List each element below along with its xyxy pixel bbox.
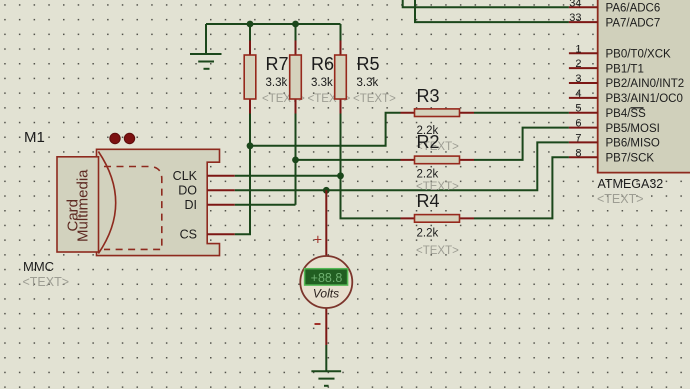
svg-text:2: 2	[575, 58, 581, 70]
wire voltmeter to ground	[325, 345, 327, 371]
svg-text:<TEXT>: <TEXT>	[416, 245, 459, 257]
chip pin 6 PB5/MOSI	[569, 118, 660, 135]
node junction on bus at R7	[247, 21, 254, 28]
svg-text:3.3k: 3.3k	[311, 77, 333, 89]
wire CS from MMC up and across to R3	[235, 113, 401, 235]
node junction on bus at R6	[292, 21, 299, 28]
wire R2 line from R6 column to R2	[296, 159, 401, 161]
svg-text:R2: R2	[417, 132, 440, 152]
wire to chip pin 34	[403, 0, 569, 7]
svg-text:33: 33	[569, 12, 581, 24]
op-amp U1 : ATMEGA32 chip body	[597, 0, 690, 206]
voltmeter pin + (top)	[325, 190, 327, 256]
svg-text:7: 7	[575, 132, 581, 144]
svg-text:<TEXT>: <TEXT>	[597, 192, 644, 206]
svg-text:+: +	[314, 233, 322, 249]
svg-text:R4: R4	[417, 191, 440, 211]
card curved edge	[98, 152, 115, 254]
svg-text:<TEXT>: <TEXT>	[353, 93, 396, 105]
wire R6 top to bus	[295, 24, 297, 41]
svg-text:M1: M1	[24, 129, 45, 146]
svg-text:DI: DI	[185, 198, 198, 212]
chip pin 1 PB0/T0/XCK	[569, 43, 671, 60]
svg-text:MMC: MMC	[23, 259, 54, 274]
MMC holder body	[97, 149, 220, 255]
svg-text:DO: DO	[178, 184, 197, 198]
resistor R2	[401, 132, 475, 193]
svg-text:Multimedia: Multimedia	[75, 169, 92, 242]
svg-text:PA7/ADC7: PA7/ADC7	[606, 17, 661, 29]
svg-text:PB5/MOSI: PB5/MOSI	[606, 123, 660, 135]
card sleeve rectangle	[57, 157, 99, 252]
svg-text:CS: CS	[180, 228, 197, 242]
svg-text:PB7/SCK: PB7/SCK	[606, 153, 655, 165]
svg-text:PB2/AIN0/INT2: PB2/AIN0/INT2	[606, 78, 685, 90]
node junction CLK/R5	[337, 172, 344, 179]
chip pin 4 PB3/AIN1/OC0	[569, 88, 683, 105]
svg-text:+88.8: +88.8	[311, 271, 343, 285]
minus terminal mark	[315, 323, 321, 325]
svg-text:PB0/T0/XCK: PB0/T0/XCK	[606, 49, 672, 61]
node junction CS/R7	[247, 142, 254, 149]
wire R5 bottom down to R4 line	[341, 114, 401, 219]
chip pin 2 PB1/T1	[569, 58, 644, 75]
svg-text:R7: R7	[266, 54, 289, 74]
chip pin 7 PB6/MISO	[569, 132, 660, 149]
indicator dot right	[124, 133, 134, 143]
svg-text:8: 8	[575, 147, 581, 159]
svg-text:ATMEGA32: ATMEGA32	[598, 177, 664, 191]
svg-text:PA6/ADC6: PA6/ADC6	[606, 3, 661, 15]
voltmeter pin - (bottom)	[325, 308, 327, 345]
wire top bus from ground to R5 top	[206, 23, 341, 25]
svg-text:2.2k: 2.2k	[417, 228, 439, 240]
svg-text:3.3k: 3.3k	[266, 77, 288, 89]
wire R7 top to bus	[249, 24, 251, 41]
svg-text:Volts: Volts	[313, 287, 339, 301]
chip pin 3 PB2/AIN0/INT2	[569, 73, 684, 90]
svg-text:PB6/MISO: PB6/MISO	[606, 138, 660, 150]
ground (bottom, under voltmeter)	[311, 371, 341, 386]
svg-text:<TEXT>: <TEXT>	[23, 275, 70, 289]
pin DI	[207, 204, 235, 206]
svg-text:3: 3	[575, 73, 581, 85]
svg-text:PB4/SS: PB4/SS	[606, 108, 647, 120]
svg-text:2.2k: 2.2k	[417, 169, 439, 181]
chip pin 33 PA7/ADC7	[569, 12, 660, 29]
wire to chip pin 33	[415, 0, 569, 22]
svg-text:R6: R6	[311, 54, 334, 74]
card dashed outline	[104, 167, 162, 250]
wire R6 bottom down to DI line	[295, 114, 297, 205]
pin CS	[207, 233, 235, 235]
svg-text:3.3k: 3.3k	[357, 77, 379, 89]
node junction DI net / R2 wire	[292, 157, 299, 164]
svg-text:34: 34	[569, 0, 581, 9]
chip pin 34 PA6/ADC6	[569, 0, 660, 15]
resistor R6	[290, 41, 351, 114]
pin CLK	[207, 175, 235, 177]
chip pin 8 PB7/SCK	[569, 147, 655, 164]
svg-text:4: 4	[575, 88, 581, 100]
svg-text:CLK: CLK	[173, 169, 198, 183]
svg-text:PB3/AIN1/OC0: PB3/AIN1/OC0	[606, 93, 683, 105]
wire R7 bottom to CS node	[249, 114, 251, 146]
resistor R7	[244, 41, 305, 114]
svg-text:6: 6	[575, 118, 581, 130]
voltmeter body	[300, 233, 352, 325]
wire R2 to chip PB5/MOSI	[474, 128, 569, 160]
component M1 MMC	[23, 129, 235, 289]
svg-text:R5: R5	[357, 54, 380, 74]
wire R3 to chip PB4/SS	[474, 112, 569, 114]
resistor R5	[335, 41, 396, 114]
ground (top, near R7)	[190, 24, 222, 69]
resistor R4	[401, 191, 475, 257]
chip pin 5 PB4/SS	[569, 103, 646, 120]
svg-text:PB1/T1: PB1/T1	[606, 63, 644, 75]
resistor R3	[401, 86, 475, 153]
wire R4 to chip PB7/SCK	[474, 157, 569, 218]
wire CLK from MMC to R5 column	[235, 175, 341, 177]
wire DI from MMC to R6 column	[235, 204, 296, 206]
svg-text:5: 5	[575, 103, 581, 115]
voltmeter LCD display	[305, 269, 348, 285]
pin DO	[207, 189, 235, 191]
wire DO from MMC to chip PB6/MISO	[235, 142, 569, 190]
svg-text:1: 1	[575, 43, 581, 55]
wire R5 top to bus	[340, 24, 342, 41]
indicator dot left	[110, 133, 120, 143]
svg-text:R3: R3	[417, 86, 440, 106]
node junction DO/voltmeter	[323, 187, 330, 194]
